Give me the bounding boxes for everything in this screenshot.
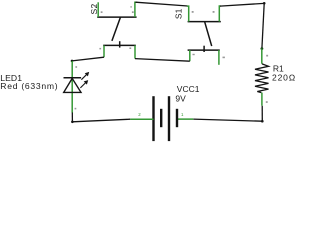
S2 common contact tick — [119, 41, 121, 47]
LED triangle anode — [64, 78, 81, 92]
wire LED bottom stub — [71, 112, 73, 122]
LED emission arrow 2 — [80, 80, 88, 88]
wire corner to battery plus — [193, 119, 262, 121]
LED pin lead (vertical through symbol) — [71, 61, 73, 113]
S1 upper bar — [188, 21, 221, 23]
S2 pin lower-left — [103, 45, 105, 57]
S2 lever — [112, 17, 121, 41]
bendpoint dot top-right — [263, 2, 266, 5]
wire R1 bottom to corner — [261, 106, 263, 122]
switch S1 — [173, 6, 225, 65]
S2 pin upper-right — [135, 2, 137, 17]
S2 upper bar — [97, 16, 136, 18]
LED emission arrow 1 — [81, 72, 89, 80]
S1 common contact tick — [203, 46, 205, 52]
LED pin top number — [75, 66, 77, 68]
S1 pin lower-left number — [193, 54, 195, 55]
battery plate short left — [160, 109, 162, 127]
wire S2 to LED (top-left) — [72, 57, 104, 61]
S2 pin lower-right number — [129, 47, 131, 49]
wire S1 to top-right corner — [220, 3, 264, 6]
bendpoint dot bottom-left — [71, 121, 74, 124]
battery pin right (1) — [177, 118, 193, 120]
junction dot at R1 top — [261, 47, 264, 50]
S2 pin upper-left — [97, 2, 99, 17]
S2 pin lower-left number — [99, 48, 101, 50]
S1 lever — [205, 22, 212, 46]
S1 pin upper-right number — [213, 11, 215, 13]
bendpoint dot bottom-right — [261, 120, 264, 123]
battery pin left (2) — [130, 118, 153, 120]
battery plate long right — [168, 96, 170, 141]
svg-text:9V: 9V — [175, 94, 186, 104]
S2 pin lower-right — [134, 45, 136, 58]
R1 pin bottom number — [266, 101, 268, 103]
switch S2 — [89, 2, 137, 58]
resistor R1 — [255, 49, 296, 106]
S2 pin upper-left number — [94, 5, 95, 6]
svg-text:Red (633nm): Red (633nm) — [0, 81, 58, 91]
svg-text:220Ω: 220Ω — [272, 73, 296, 83]
R1 pin top number — [266, 55, 268, 57]
battery plate short right — [176, 109, 178, 127]
S1 pin upper-left number — [192, 11, 194, 13]
R1 pin top — [261, 49, 263, 64]
S1 pin lower-right number — [223, 57, 225, 59]
svg-text:S1: S1 — [173, 8, 183, 19]
battery VCC1 — [130, 84, 200, 141]
LED LED1 — [0, 61, 89, 113]
wire down right edge to R1 — [262, 3, 264, 48]
S1 pin lower-right — [218, 50, 220, 65]
wire battery minus to LED bottom corner — [72, 119, 130, 122]
R1 zigzag body — [255, 64, 269, 93]
S2 pin upper-right number — [130, 6, 131, 7]
wire S2 to S1 (top traveller) — [135, 2, 187, 6]
S1 pin upper-right — [219, 6, 221, 22]
S1 lower bar — [188, 49, 220, 51]
wire S2 to S1 (lower traveller) — [135, 59, 190, 62]
LED pin bottom number — [75, 108, 77, 110]
S1 pin upper-left — [187, 6, 189, 22]
S1 pin lower-left — [189, 50, 191, 61]
LED cathode bar — [64, 77, 82, 79]
battery plate long left — [152, 96, 154, 141]
S2 lower bar — [103, 44, 136, 46]
bendpoint dot LED top — [71, 60, 74, 63]
R1 pin bottom — [261, 93, 263, 106]
